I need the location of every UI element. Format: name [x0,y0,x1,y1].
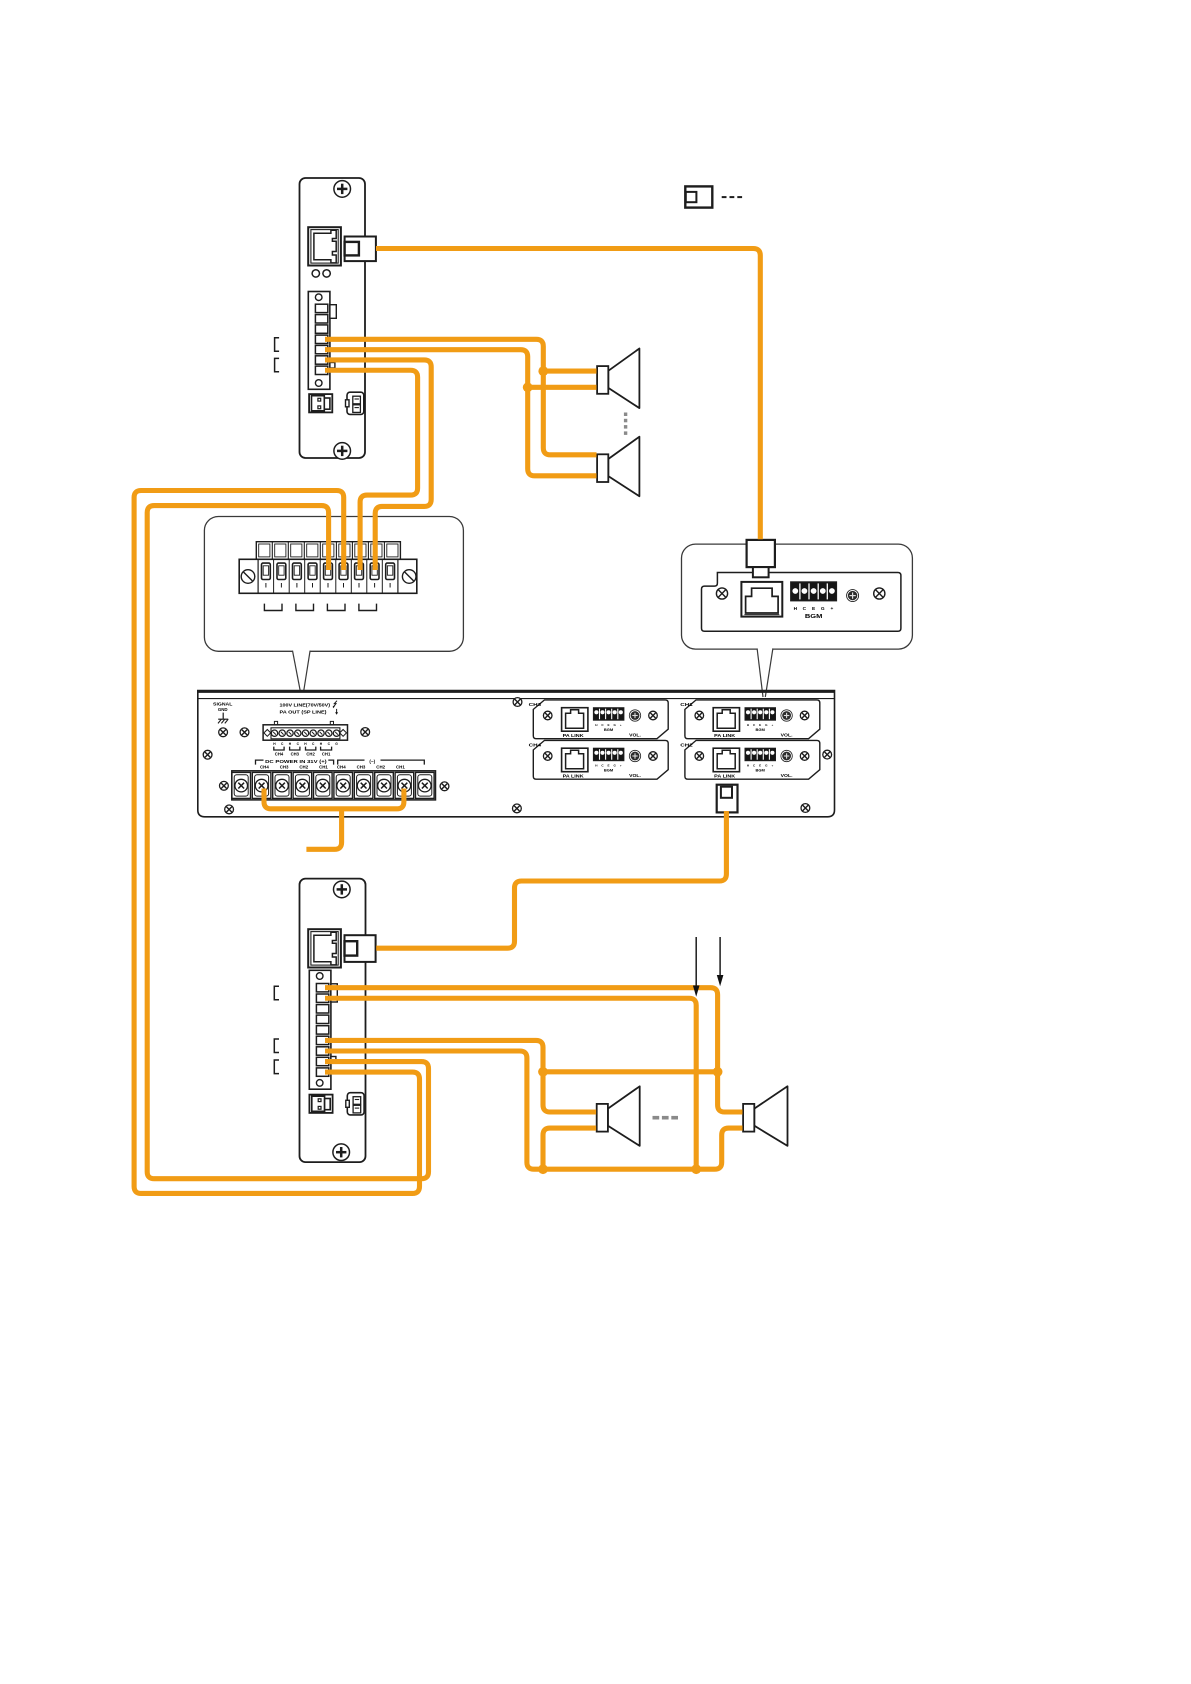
svg-text:G: G [335,742,338,746]
device B auxiliary connectors [309,1093,364,1115]
svg-text:PA LINK: PA LINK [714,733,736,739]
device A terminal pair brackets [275,338,280,372]
svg-text:C: C [803,606,807,612]
magnified screw terminal strip [239,542,417,594]
BGM module right screw [874,588,885,599]
speaker 1 (top chain) [597,349,639,409]
wire: DC power link terminals 2-9 [264,789,404,850]
CH1 module slot [680,700,820,739]
speaker 2 (top chain) [597,437,639,497]
svg-text:PA OUT (SP LINE): PA OUT (SP LINE) [280,710,328,715]
device A speaker terminal block (7-pin) [308,292,336,390]
DC POWER IN label + brackets [256,759,334,765]
CH2 module slot [680,740,820,779]
svg-text:SIGNAL: SIGNAL [213,701,233,706]
callout balloon: PA OUT terminal detail [204,517,463,652]
DC channel labels row [260,765,405,770]
wire: device B pin1 to speaker 4 + [325,988,743,1112]
device A bottom screw [334,443,351,460]
junction dot bottom chain bottom bus right [691,1164,701,1174]
euroblock pin labels [273,742,338,746]
wire: amplifier PA LINK to device B LAN [376,811,726,948]
svg-text:CH2: CH2 [306,751,315,756]
wire: device B pin2 to bottom bus - [325,998,696,1169]
DC POWER terminal strip [232,771,436,800]
svg-text:100V LINE(70V/50V): 100V LINE(70V/50V) [280,702,331,707]
svg-text:CH4: CH4 [529,743,542,748]
wire: device A pin4 to speakers + line [325,339,597,454]
junction dot speaker chain 1 - [523,382,533,392]
svg-text:CH4: CH4 [275,751,284,756]
svg-text:G: G [821,606,825,612]
euroblock channel labels [275,751,331,756]
svg-text:VOL.: VOL. [781,733,793,738]
wire: bottom - bus to speaker 4 - [543,1128,743,1169]
device A RJ45 network jack [308,227,341,265]
wire: device A LAN to BGM module plug [376,249,760,540]
ellipsis dashes between speakers 1-2 [624,413,627,435]
BGM module LAN plug [747,540,775,577]
svg-text:BGM: BGM [604,767,614,772]
terminal pair brackets under strip [264,604,376,611]
BGM module plate [702,573,901,632]
BGM block labels H C E G + [794,606,834,612]
wire: device B pin6 to speaker 3 + [325,1040,596,1112]
arrow marker right [717,937,724,986]
wire: speaker 3 - lead [543,1128,596,1169]
device A LAN plug [345,237,376,262]
svg-text:+: + [830,607,833,612]
speaker 3 (bottom chain) [597,1086,640,1146]
wire: top + bus between verticals [543,1069,718,1074]
device A plate (top speaker-line unit) [300,178,366,458]
svg-text:GND: GND [218,707,228,712]
euroblock channel brackets [274,747,332,750]
BGM module left screw [716,588,727,599]
CH4 module slot [529,740,669,779]
legend RJ45 plug symbol [685,186,712,207]
BGM module dark adjustment screw [847,590,859,602]
balloon tail to PA OUT block [293,650,311,693]
device B plate (bottom speaker-line unit) [300,879,366,1163]
svg-text:H: H [794,606,798,612]
svg-text:PA LINK: PA LINK [714,773,736,779]
svg-text:CH1: CH1 [322,751,331,756]
svg-text:PA LINK: PA LINK [563,733,585,739]
svg-text:CH4: CH4 [260,765,269,770]
wire: device A pin7 to PA OUT slot 7 [325,370,418,570]
arrow marker left [693,937,700,997]
signal ground symbol [218,713,228,724]
svg-text:+: + [620,723,622,727]
svg-text:VOL.: VOL. [629,733,641,738]
svg-text:CH1: CH1 [396,765,405,770]
wire: device B pin9 loop to PA OUT slot 6 [134,491,419,1194]
svg-text:CH2: CH2 [299,765,308,770]
BGM module PA LINK jack [741,582,782,617]
device B terminal pair brackets [274,986,279,1073]
svg-text:CH1: CH1 [680,702,693,707]
svg-text:CH3: CH3 [529,702,542,707]
svg-text:BGM: BGM [756,767,766,772]
junction dot speaker chain 1 + [538,366,548,376]
svg-text:CH3: CH3 [291,751,300,756]
svg-text:CH2: CH2 [680,743,693,748]
balloon tail to CH1 module [757,648,773,697]
panel screws [203,698,831,814]
CH3 module slot [529,700,669,739]
ellipsis dashes between speakers 3-4 [653,1116,679,1120]
svg-text:VOL.: VOL. [781,773,793,778]
legend dashed line [722,196,742,198]
svg-text:CH2: CH2 [376,765,385,770]
device B bottom screw [333,1144,350,1161]
svg-text:+: + [771,763,773,767]
wire: device A pin6 to PA OUT slot 8 [325,360,431,570]
svg-text:DC POWER IN 31V (+): DC POWER IN 31V (+) [265,759,327,764]
junction dot bottom chain top bus right [713,1067,723,1077]
device B speaker terminal block (9-pin) [309,970,337,1089]
svg-text:CH3: CH3 [357,765,366,770]
svg-text:+: + [771,723,773,727]
PA OUT euroblock connector [263,721,347,740]
BGM label [805,614,823,620]
device A top screw [334,181,351,198]
SIGNAL GND label [213,701,233,712]
svg-text:BGM: BGM [756,727,766,732]
svg-text:BGM: BGM [604,727,614,732]
device B RJ45 network jack [308,929,341,967]
callout balloon: BGM module detail [682,544,913,649]
svg-text:CH3: CH3 [280,765,289,770]
minus label + brackets [338,759,425,765]
device A link/status LEDs [312,270,330,277]
svg-text:CH1: CH1 [319,765,328,770]
device A auxiliary connectors [309,392,364,414]
junction dot bottom chain bottom bus left [538,1164,548,1174]
line symbols [333,701,338,715]
svg-text:+: + [620,763,622,767]
device B top screw [334,881,351,898]
BGM 5-pin terminal block [791,582,837,601]
speaker 4 (bottom chain) [743,1086,787,1146]
svg-text:CH4: CH4 [337,765,346,770]
device B LAN plug [345,935,376,962]
wire: device A pin5 to speakers - line [325,350,597,476]
svg-text:BGM: BGM [805,614,823,620]
junction dot bottom chain top bus left [538,1067,548,1077]
amplifier PA LINK plug (to device B) [717,785,738,813]
wire: device B pin7 to bottom bus - [325,1051,543,1169]
svg-text:VOL.: VOL. [629,773,641,778]
wire: device B pin8 loop to PA OUT slot 5 [147,506,428,1179]
100V LINE / PA OUT labels [280,702,331,714]
svg-text:PA LINK: PA LINK [563,773,585,779]
amplifier rear panel [198,691,835,817]
svg-text:(−): (−) [369,759,375,764]
